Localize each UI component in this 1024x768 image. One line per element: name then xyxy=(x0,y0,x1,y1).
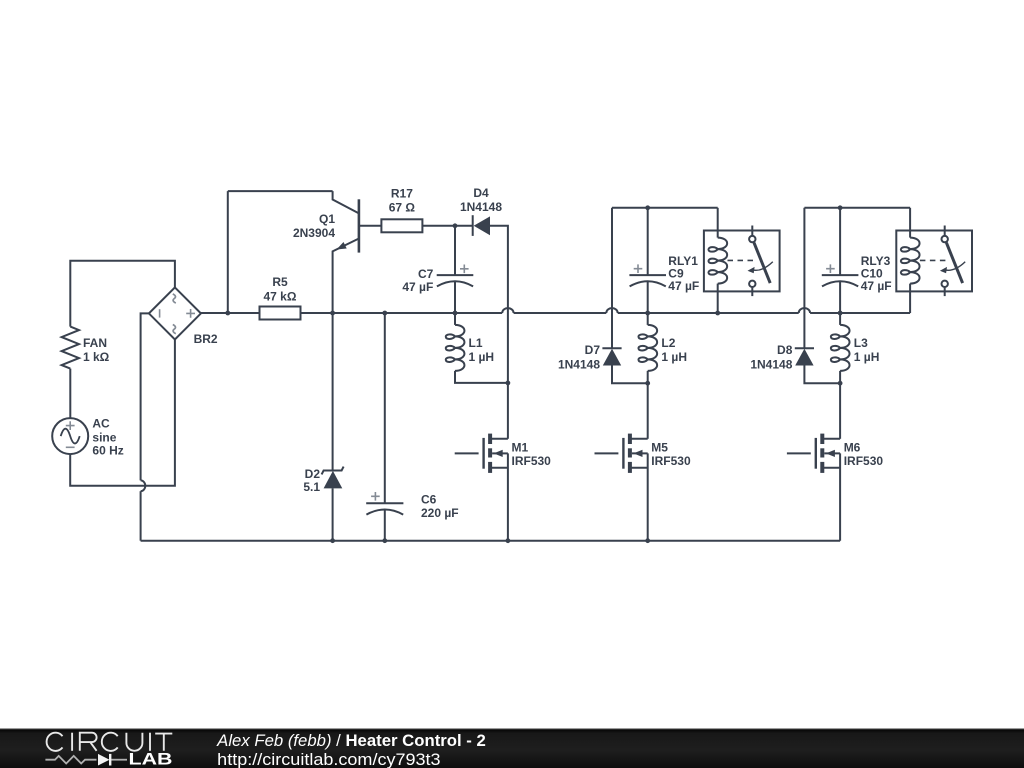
svg-text:L3: L3 xyxy=(854,336,868,350)
wire to M1 drain xyxy=(507,383,509,439)
wire D4 to drain column xyxy=(490,226,508,383)
svg-text:2N3904: 2N3904 xyxy=(293,226,335,240)
node junction M5 source on ground rail xyxy=(645,538,650,543)
svg-text:1 µH: 1 µH xyxy=(661,350,687,364)
wire main rail R5 to D4 column xyxy=(301,312,503,314)
wire to MOSFET drain xyxy=(839,383,841,439)
wire hop over D4/M1 column xyxy=(502,308,513,313)
capacitor C10 47uF xyxy=(839,208,841,275)
inductor L3 1uH xyxy=(839,313,841,325)
Q1 emitter arrow xyxy=(337,242,347,250)
node junction C7 bottom on rail xyxy=(453,311,458,316)
AC source sine wave xyxy=(61,429,80,444)
wire main rail BR2 to R5 xyxy=(201,312,260,314)
svg-text:47 kΩ: 47 kΩ xyxy=(264,289,297,303)
transistor Q1 2N3904 (NPN, mirrored) collector lead xyxy=(333,191,359,213)
wire to MOSFET drain xyxy=(647,383,649,439)
BR2 plus mark xyxy=(186,309,195,318)
inductor L1 1uH xyxy=(454,313,456,325)
svg-text:M1: M1 xyxy=(512,441,529,455)
svg-text:67 Ω: 67 Ω xyxy=(389,201,416,215)
wire Q1 collector loop xyxy=(227,191,229,313)
wire ground rail xyxy=(141,540,841,542)
relay RLY1 xyxy=(704,231,780,292)
RLY3 actuation arrow xyxy=(944,262,966,271)
RLY3 coil xyxy=(909,208,911,238)
svg-text:D2: D2 xyxy=(305,467,321,481)
svg-text:M6: M6 xyxy=(844,441,861,455)
RLY3 linkage dashed line xyxy=(920,259,950,261)
RLY1 linkage dashed line xyxy=(728,259,758,261)
C10 plus mark xyxy=(826,264,835,273)
relay RLY3 xyxy=(896,231,972,292)
svg-text:R5: R5 xyxy=(272,275,288,289)
svg-text:D4: D4 xyxy=(473,186,489,200)
diode D4 1N4148 (pointing left) xyxy=(472,215,474,236)
svg-text:1N4148: 1N4148 xyxy=(460,200,502,214)
wire R17 to D4 xyxy=(422,225,472,227)
svg-text:IRF530: IRF530 xyxy=(512,454,552,468)
svg-text:Q1: Q1 xyxy=(319,212,335,226)
node junction at x=227.8 on rail xyxy=(225,311,230,316)
node junction C9 top xyxy=(645,205,650,210)
svg-text:D8: D8 xyxy=(777,343,793,357)
node junction L3 bottom / D8 xyxy=(838,381,843,386)
svg-text:47 µF: 47 µF xyxy=(668,279,699,293)
wire hop over AC return wire xyxy=(141,480,146,491)
wire to ground rail xyxy=(140,491,142,541)
transistor M1 IRF530 (NMOS) xyxy=(455,452,479,454)
node junction C6 on ground rail xyxy=(382,538,387,543)
svg-text:D7: D7 xyxy=(585,343,601,357)
BR2 ac mark top (rotated tilde) xyxy=(173,294,176,303)
node junction D2 on ground rail xyxy=(330,538,335,543)
svg-text:IRF530: IRF530 xyxy=(844,454,884,468)
AC source minus mark xyxy=(66,446,75,448)
node junction R17/D4/C7 xyxy=(453,223,458,228)
svg-text:L2: L2 xyxy=(661,336,675,350)
C6 plus mark xyxy=(371,492,380,501)
footer bar xyxy=(0,729,1024,768)
BR2 ac mark bottom (rotated tilde) xyxy=(173,325,176,334)
svg-text:C7: C7 xyxy=(418,267,434,281)
svg-text:IRF530: IRF530 xyxy=(651,454,691,468)
svg-text:R17: R17 xyxy=(391,187,413,201)
svg-text:http://circuitlab.com/cy793t3: http://circuitlab.com/cy793t3 xyxy=(217,751,440,768)
svg-text:47 µF: 47 µF xyxy=(861,279,892,293)
svg-text:60 Hz: 60 Hz xyxy=(92,444,123,458)
diode D7 1N4148 (pointing up) xyxy=(611,208,613,348)
transistor M5 IRF530 (NMOS) xyxy=(595,452,619,454)
svg-text:Alex Feb (febb) / Heater Contr: Alex Feb (febb) / Heater Control - 2 xyxy=(216,732,486,750)
svg-text:5.1: 5.1 xyxy=(303,480,320,494)
Q1 emitter lead to rail xyxy=(333,239,359,314)
node junction emitter on rail xyxy=(330,311,335,316)
svg-text:sine: sine xyxy=(92,430,116,444)
zener diode D2 5.1 xyxy=(332,313,334,471)
node junction C10 bottom on rail xyxy=(838,311,843,316)
wire BR2 minus terminal to ground rail xyxy=(141,313,149,480)
node junction C9 bottom on rail xyxy=(645,311,650,316)
node junction M1 source on ground rail xyxy=(506,538,511,543)
RLY1 switch blade xyxy=(754,243,770,283)
transistor M6 IRF530 (NMOS) xyxy=(787,452,811,454)
svg-text:C6: C6 xyxy=(421,493,437,507)
capacitor C6 220uF xyxy=(382,311,387,316)
svg-text:BR2: BR2 xyxy=(194,332,218,346)
inductor L2 1uH xyxy=(647,313,649,325)
C9 plus mark xyxy=(634,264,643,273)
wire FAN top loop to bridge top xyxy=(70,261,175,327)
RLY1 coil xyxy=(717,208,719,238)
svg-text:1 µH: 1 µH xyxy=(854,350,880,364)
svg-text:1N4148: 1N4148 xyxy=(750,357,792,371)
AC source plus mark xyxy=(66,421,75,430)
svg-text:L1: L1 xyxy=(469,336,483,350)
RLY1 switch terminals xyxy=(751,226,753,236)
RLY3 switch blade xyxy=(946,243,962,283)
node junction RLY1 coil on rail xyxy=(715,311,720,316)
wire AC bottom to bridge bottom vertex (with hop) xyxy=(70,340,175,486)
Q1 base bar xyxy=(358,199,361,252)
C7 plus mark xyxy=(460,265,469,274)
Q1 base lead to R17 xyxy=(359,225,382,227)
capacitor C9 47uF xyxy=(647,208,649,275)
svg-text:1 kΩ: 1 kΩ xyxy=(83,350,110,364)
wire main rail to D8 column xyxy=(618,312,799,314)
wire hop over D8 column xyxy=(799,308,810,313)
svg-text:LAB: LAB xyxy=(129,751,173,768)
svg-text:1N4148: 1N4148 xyxy=(558,357,600,371)
svg-text:220 µF: 220 µF xyxy=(421,506,459,520)
CircuitLab logo squiggle (resistor + diode) xyxy=(45,756,127,764)
node junction C10 top xyxy=(838,205,843,210)
svg-text:FAN: FAN xyxy=(83,336,107,350)
wire top rail RLY1 xyxy=(612,207,718,209)
svg-text:AC: AC xyxy=(92,416,110,430)
resistor R17 box xyxy=(381,219,422,232)
wire FAN to AC source xyxy=(69,369,71,419)
AC source V1 circle xyxy=(52,418,88,454)
svg-text:1 µH: 1 µH xyxy=(469,350,495,364)
svg-text:47 µF: 47 µF xyxy=(402,280,433,294)
bridge rectifier BR2 diamond xyxy=(149,287,201,339)
node junction L2 bottom / D7 xyxy=(645,381,650,386)
RLY3 switch terminals xyxy=(944,226,946,236)
BR2 minus mark (rotated) xyxy=(159,309,161,317)
diode D8 1N4148 (pointing up) xyxy=(803,208,805,348)
wire hop over D7 column xyxy=(606,308,617,313)
resistor FAN (zigzag) xyxy=(62,327,79,369)
wire top rail RLY3 xyxy=(804,207,910,209)
capacitor C7 47uF xyxy=(454,226,456,275)
wire main rail to RLY3 coil xyxy=(810,312,910,314)
RLY1 actuation arrow xyxy=(751,262,773,271)
svg-text:M5: M5 xyxy=(651,441,668,455)
resistor R5 box xyxy=(260,307,301,320)
node junction L1 bottom / D4 / M1 drain xyxy=(506,381,511,386)
CircuitLab logo CIRCUIT (drawn letters) xyxy=(47,733,173,751)
wire main rail to D7 column xyxy=(514,312,607,314)
